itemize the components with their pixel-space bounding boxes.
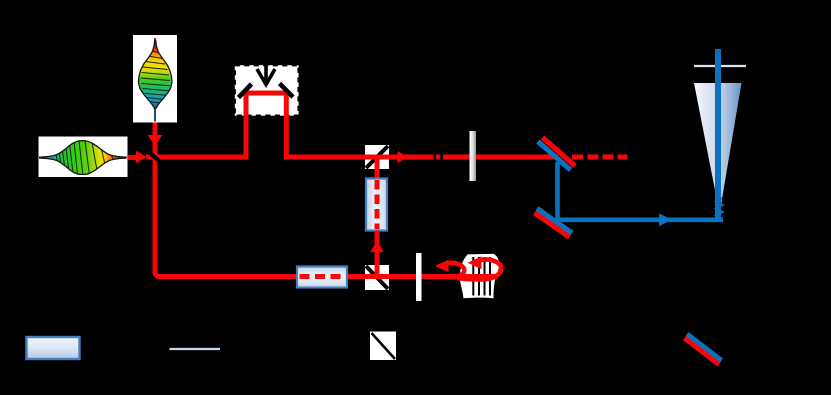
wire blue vertical through tip (715, 49, 721, 219)
arrowhead red after BS1 (398, 151, 408, 163)
cantilever pale line (694, 65, 746, 67)
node beam combiner at crossing (151, 154, 159, 161)
lens L1 (white bar) (416, 253, 422, 301)
beam red input arrow (right) (128, 151, 147, 163)
wire red dashed after dichroic (572, 155, 628, 160)
legend lens symbol (170, 348, 221, 350)
legend dichroic symbol (685, 334, 722, 365)
wire red vertical to bottom rail (155, 157, 297, 277)
legend crystal symbol (27, 337, 80, 359)
wire red BS1 to crystal (375, 157, 380, 179)
wire red below crystal with up arrow (370, 231, 383, 277)
arrow red loop A (retro-reflection) (435, 260, 464, 277)
AFM tip cone (694, 83, 742, 208)
wire red bottom rail right part (347, 274, 416, 279)
grating / shaper (460, 254, 499, 298)
zigzag near-field at tip (716, 198, 723, 219)
beamsplitter BS2 (365, 265, 389, 290)
beamsplitter BS1 (365, 145, 389, 169)
delay stage box (dashed) (235, 65, 299, 116)
wire red main beam through delay (146, 93, 434, 157)
crystal C2 (horizontal) (297, 267, 347, 288)
beam red down arrow from P2 (148, 123, 163, 159)
legend beamsplitter symbol (370, 332, 396, 361)
mirror M-right of delay (280, 84, 294, 98)
pulse P2 chirped (vertical, white box) (133, 35, 177, 123)
pulse P1 input (horizontal, white box) (39, 137, 128, 178)
mirror M-left of delay (239, 84, 252, 98)
mirror M2 (blue/red) (535, 209, 573, 238)
filter F1 (gray bar) (470, 131, 477, 181)
arrow red loop B (retro-reflection) (458, 256, 502, 279)
wire red filter to dichroic (476, 155, 558, 160)
wire red before filter (443, 155, 470, 160)
wire blue from D1 to M2 to tip (558, 162, 724, 220)
wire red dot segment (436, 155, 440, 160)
crystal C1 (vertical) (366, 179, 387, 231)
arrow black delay translation (257, 63, 275, 85)
arrowhead blue (659, 213, 672, 226)
dichroic mirror D1 (538, 138, 575, 171)
